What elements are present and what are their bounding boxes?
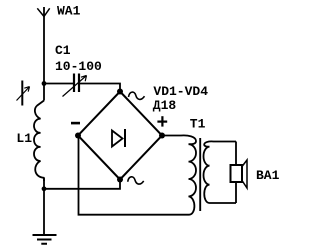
svg-text:L1: L1 (16, 131, 32, 146)
svg-text:T1: T1 (190, 116, 206, 131)
svg-text:10-100: 10-100 (55, 59, 102, 74)
svg-text:Д18: Д18 (153, 98, 177, 113)
svg-text:VD1-VD4: VD1-VD4 (153, 84, 208, 99)
svg-text:BA1: BA1 (256, 168, 280, 183)
svg-text:WA1: WA1 (57, 4, 81, 19)
svg-text:C1: C1 (55, 43, 71, 58)
